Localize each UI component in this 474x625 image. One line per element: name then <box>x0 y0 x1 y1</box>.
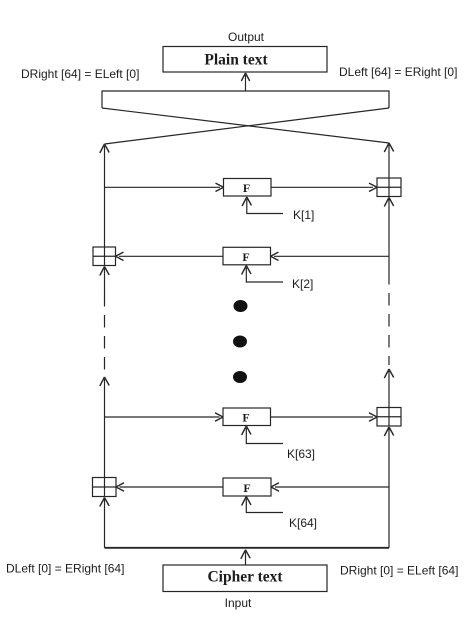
svg-text:Plain text: Plain text <box>204 52 268 69</box>
node top swap bracket <box>102 91 389 108</box>
wire arrow into xor2 from below <box>100 267 109 295</box>
wire right dashed segment <box>388 272 390 365</box>
svg-text:F: F <box>242 411 249 425</box>
label K[64] <box>289 516 317 530</box>
svg-text:Output: Output <box>228 30 265 44</box>
wire left vertical upper with arrow <box>100 144 109 247</box>
wire swap cross right-to-left <box>105 108 390 144</box>
wire bottom distribution bus <box>105 547 390 549</box>
node ellipsis dot 1 <box>234 300 248 312</box>
label DRight [0] = ELeft [64] <box>340 564 458 578</box>
wire arrow into xor63 from below <box>384 427 393 548</box>
svg-text:F: F <box>242 250 249 264</box>
svg-text:F: F <box>243 481 250 495</box>
label Output <box>228 30 265 44</box>
node ellipsis dot 2 <box>233 336 247 348</box>
node xor2 left <box>93 247 116 266</box>
wire F64 output to xor64 <box>116 483 223 491</box>
label Input <box>225 596 252 610</box>
svg-text:F: F <box>243 181 250 195</box>
wire arrow into xor64 from below <box>100 498 109 548</box>
wire arrow from Cipher text up to bus <box>241 550 250 565</box>
box F round64 <box>223 478 271 496</box>
svg-text:Input: Input <box>225 596 252 610</box>
svg-text:K[2]: K[2] <box>292 277 313 291</box>
svg-text:K[64]: K[64] <box>289 516 317 530</box>
node ellipsis dot 3 <box>233 371 247 383</box>
box F round1 <box>224 179 272 197</box>
box F round2 <box>223 247 271 264</box>
wire arrow into Plain text box <box>241 73 249 91</box>
box Cipher text <box>163 565 327 592</box>
label K[63] <box>287 447 315 461</box>
wire F1 output to xor1 <box>271 183 377 191</box>
wire right vertical upper with arrow <box>384 143 393 178</box>
wire swap cross left-to-right <box>102 108 389 143</box>
wire key2 elbow with arrow into F2 <box>242 266 283 283</box>
svg-text:Cipher text: Cipher text <box>207 569 283 586</box>
wire left vertical lower with arrow <box>100 377 109 478</box>
svg-text:DLeft [64] = ERight [0]: DLeft [64] = ERight [0] <box>339 65 457 79</box>
node xor1 right <box>377 178 401 197</box>
wire key1 elbow with arrow into F1 <box>242 197 283 214</box>
node xor63 right <box>377 408 401 427</box>
box Plain text <box>163 47 327 73</box>
svg-text:K[63]: K[63] <box>287 447 315 461</box>
wire F2 output to xor2 <box>116 252 224 260</box>
label DRight [64] = ELeft [0] <box>21 67 139 81</box>
wire round64 input right to F64 <box>271 483 389 491</box>
svg-text:DLeft [0] = ERight [64]: DLeft [0] = ERight [64] <box>6 562 124 576</box>
wire arrow into xor1 from below <box>384 198 393 273</box>
label DLeft [64] = ERight [0] <box>339 65 457 79</box>
wire round2 input right to F2 <box>271 252 390 260</box>
label DLeft [0] = ERight [64] <box>6 562 124 576</box>
label K[2] <box>292 277 313 291</box>
node xor64 left <box>93 478 117 497</box>
wire round1 input left to F <box>105 183 224 191</box>
wire left dashed segment <box>104 294 106 374</box>
wire round63 input left to F63 <box>105 413 224 421</box>
wire right vertical lower with arrow <box>384 369 393 407</box>
svg-text:DRight [0] = ELeft [64]: DRight [0] = ELeft [64] <box>340 564 458 578</box>
label K[1] <box>293 208 314 222</box>
svg-text:DRight [64] = ELeft [0]: DRight [64] = ELeft [0] <box>21 67 139 81</box>
svg-text:K[1]: K[1] <box>293 208 314 222</box>
wire F63 output to xor63 <box>271 413 378 421</box>
box F round63 <box>223 408 271 426</box>
wire key64 elbow with arrow into F64 <box>242 497 283 513</box>
wire key63 elbow with arrow into F63 <box>242 426 283 444</box>
